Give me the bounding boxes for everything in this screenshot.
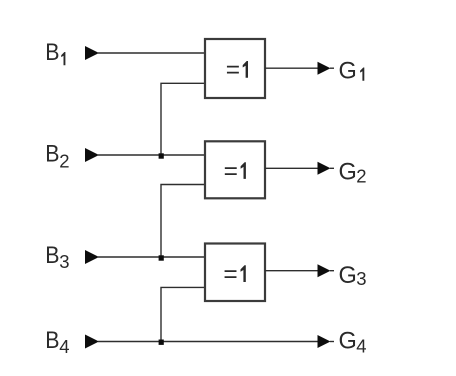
svg-text:2: 2 [59, 151, 69, 172]
svg-text:G: G [339, 327, 357, 355]
svg-text:3: 3 [59, 251, 69, 272]
wire gate U3 output [265, 270, 318, 272]
output arrow G3 [318, 264, 331, 277]
svg-text:=: = [226, 57, 240, 84]
svg-text:G: G [339, 57, 357, 85]
label B4 [45, 326, 69, 357]
svg-text:B: B [45, 240, 59, 268]
wire B3 branch to gate U2 lower input [161, 185, 205, 258]
label G1 [339, 57, 365, 85]
input arrow B3 [85, 250, 99, 264]
wire B3 to gate U3 [98, 256, 205, 258]
wire B1 to gate U1 [98, 52, 205, 54]
XOR gate U3 [205, 244, 265, 302]
wire gate U1 output [265, 67, 318, 69]
stub after arrow G2 [330, 167, 334, 169]
input arrow B4 [85, 335, 99, 349]
XOR gate U2 [205, 141, 265, 198]
svg-text:3: 3 [356, 268, 366, 289]
stub after arrow G1 [330, 67, 334, 69]
junction on B2 line [159, 153, 164, 158]
wire gate U2 output [265, 167, 318, 169]
junction on B3 line [159, 255, 164, 260]
svg-text:B: B [45, 37, 59, 65]
output arrow G1 [318, 62, 331, 75]
XOR gate U1 [205, 39, 265, 98]
svg-text:B: B [45, 326, 59, 354]
label G3 [339, 261, 367, 289]
svg-text:=: = [224, 158, 238, 185]
label G4 [339, 327, 367, 357]
input arrow B2 [85, 148, 99, 162]
svg-text:G: G [339, 261, 357, 289]
wire B4 to output G4 [98, 341, 318, 343]
input arrow B1 [85, 46, 99, 60]
wire B2 to gate U2 [98, 154, 205, 156]
label B3 [45, 240, 69, 272]
stub after arrow G3 [330, 270, 334, 272]
svg-text:=: = [223, 261, 237, 288]
svg-text:G: G [339, 158, 357, 186]
junction on B4 line [159, 340, 164, 345]
label B2 [45, 139, 69, 171]
label G2 [339, 158, 367, 186]
label B1 [45, 37, 65, 65]
svg-text:B: B [45, 139, 59, 167]
stub after arrow G4 [330, 341, 334, 343]
wire B2 branch to gate U1 lower input [161, 83, 205, 155]
svg-text:4: 4 [59, 336, 69, 357]
wire B4 branch to gate U3 lower input [161, 287, 205, 341]
output arrow G4 [318, 335, 331, 348]
output arrow G2 [318, 162, 331, 175]
svg-text:2: 2 [356, 165, 366, 186]
svg-text:4: 4 [356, 336, 366, 357]
